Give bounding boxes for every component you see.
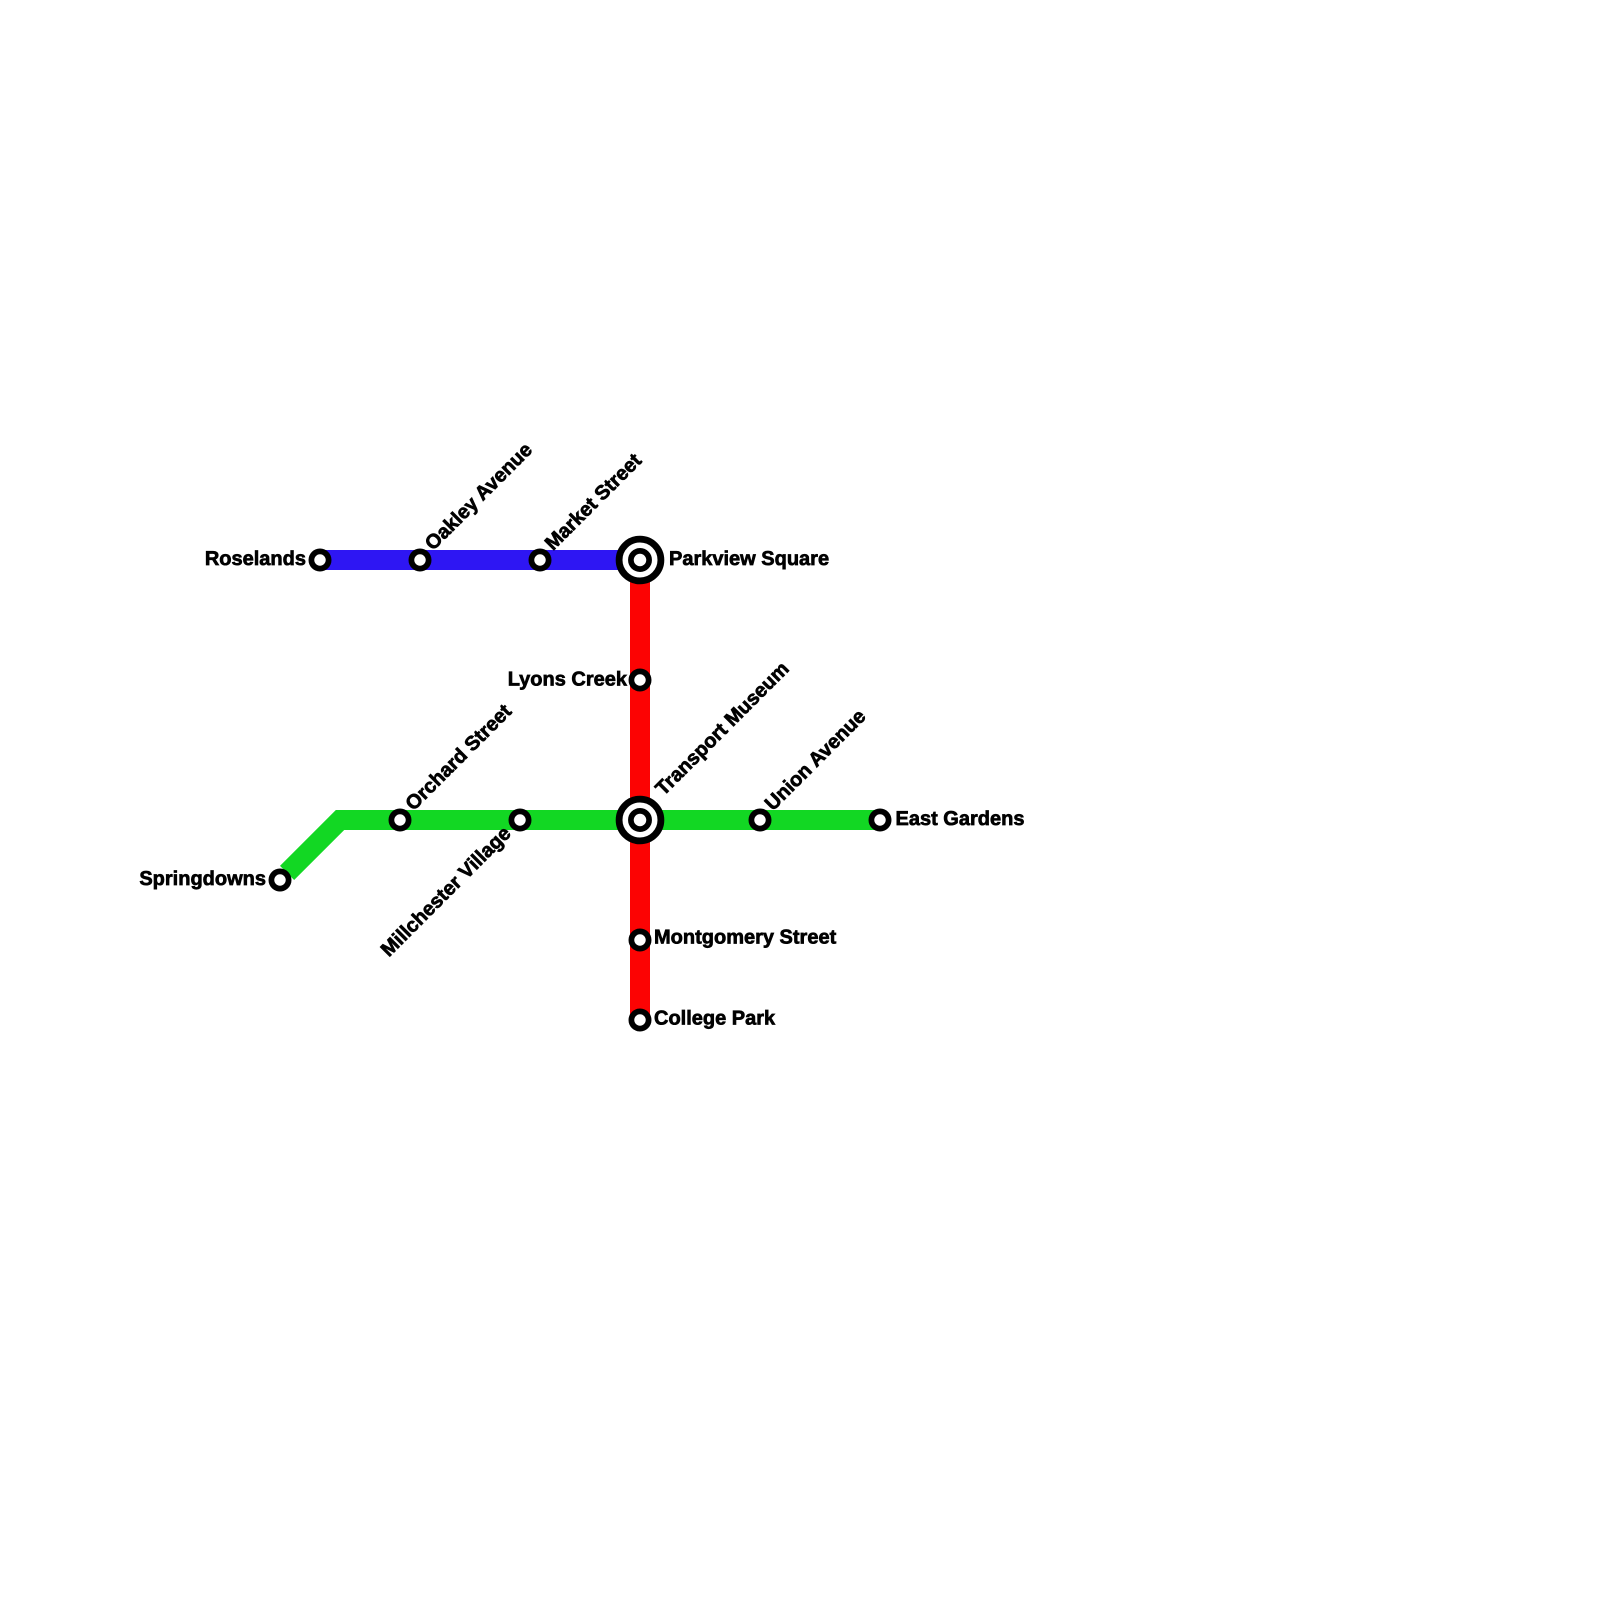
svg-text:East Gardens: East Gardens [896, 808, 1025, 830]
svg-text:Lyons Creek: Lyons Creek [508, 669, 628, 691]
svg-text:College Park: College Park [654, 1008, 776, 1030]
svg-text:Parkview Square: Parkview Square [669, 548, 829, 570]
svg-text:Roselands: Roselands [205, 548, 306, 570]
svg-text:Springdowns: Springdowns [139, 868, 266, 890]
svg-text:Montgomery Street: Montgomery Street [654, 927, 837, 949]
